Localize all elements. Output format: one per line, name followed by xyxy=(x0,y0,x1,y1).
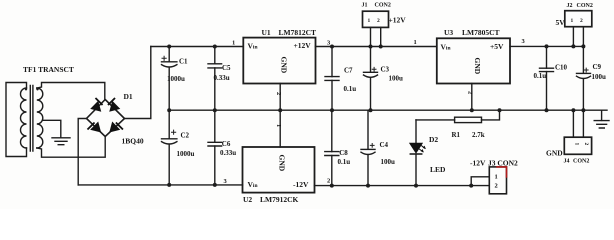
svg-text:0.33u: 0.33u xyxy=(220,149,236,157)
wire bridge left vertex branch and drop to bottom rail xyxy=(78,119,86,185)
svg-text:1000u: 1000u xyxy=(167,75,185,83)
wire bridge right vertex to top rail xyxy=(125,47,151,119)
wire GND mid rail xyxy=(169,109,607,111)
svg-text:Vin: Vin xyxy=(248,42,258,51)
svg-text:GND: GND xyxy=(278,155,287,172)
svg-text:1: 1 xyxy=(571,18,574,24)
wire top rail to U1 Vin xyxy=(151,46,244,48)
svg-text:C6: C6 xyxy=(222,140,231,148)
capacitor C1 xyxy=(168,47,170,62)
svg-text:C5: C5 xyxy=(222,64,231,72)
diode D1 bottom-right xyxy=(110,123,122,132)
wire +12V rail U1 out to U3 in xyxy=(316,46,437,48)
connector J4 CON2 xyxy=(564,137,591,154)
svg-text:GND: GND xyxy=(473,58,482,75)
op-amp U1 regulator box xyxy=(243,38,315,84)
svg-text:2: 2 xyxy=(495,183,498,190)
pin 2 U2 wire / -12V rail xyxy=(315,185,490,187)
pin 3 U2 xyxy=(224,178,228,185)
svg-text:TF1 TRANSCT: TF1 TRANSCT xyxy=(23,65,74,74)
svg-text:C1: C1 xyxy=(179,58,188,66)
svg-text:GND: GND xyxy=(280,57,289,74)
svg-text:R1: R1 xyxy=(452,131,461,139)
svg-text:2: 2 xyxy=(275,92,282,95)
wire primary loop xyxy=(6,83,27,157)
svg-text:C4: C4 xyxy=(380,141,389,149)
svg-text:C9: C9 xyxy=(593,63,602,71)
capacitor C5 xyxy=(214,47,216,64)
svg-text:-12V: -12V xyxy=(293,180,309,189)
resistor R1 xyxy=(455,117,482,122)
svg-text:LED: LED xyxy=(430,165,446,174)
svg-text:1: 1 xyxy=(232,39,235,46)
label D1 xyxy=(124,92,133,101)
transformer polarity dots xyxy=(25,88,39,90)
svg-text:2.7k: 2.7k xyxy=(472,131,485,139)
capacitor C6 xyxy=(214,110,216,142)
svg-text:1: 1 xyxy=(495,174,498,181)
svg-text:CON2: CON2 xyxy=(577,3,593,9)
transformer core xyxy=(30,86,33,152)
power label 5V xyxy=(556,18,566,27)
svg-text:J3 CON2: J3 CON2 xyxy=(488,158,518,167)
pin 3 U3 xyxy=(522,38,526,45)
wire bottom rail (to U2 pin 3) xyxy=(78,184,242,186)
svg-text:+12V: +12V xyxy=(294,41,312,50)
svg-text:C8: C8 xyxy=(339,149,348,157)
svg-text:D1: D1 xyxy=(124,92,133,101)
svg-text:2: 2 xyxy=(583,143,589,146)
capacitor C10 xyxy=(546,46,548,68)
svg-text:2: 2 xyxy=(580,18,583,24)
svg-text:Vin: Vin xyxy=(248,180,258,189)
svg-text:CON2: CON2 xyxy=(573,158,589,164)
svg-text:Vin: Vin xyxy=(441,42,451,51)
LED arrows xyxy=(418,144,426,152)
pin 2 U3 wire xyxy=(471,84,473,111)
diode D1 bottom-left xyxy=(88,123,100,132)
label 1BQ40 xyxy=(122,136,144,145)
svg-text:GND: GND xyxy=(546,148,563,157)
bridge rectifier D1 diamond xyxy=(87,100,125,137)
svg-text:1000u: 1000u xyxy=(177,150,195,158)
ground symbol (center tap) xyxy=(52,138,70,145)
capacitor C4 xyxy=(367,110,369,149)
capacitor C8 xyxy=(331,110,333,151)
svg-text:U3: U3 xyxy=(444,28,453,37)
svg-text:U2: U2 xyxy=(243,195,252,204)
capacitor C3 xyxy=(370,47,372,73)
pin 2 U1 / pin 1 U2 vertical wire xyxy=(279,84,281,148)
diode D1 top-right xyxy=(109,99,120,111)
svg-text:1: 1 xyxy=(414,39,417,46)
capacitor C7 xyxy=(331,47,333,77)
svg-text:LM7912CK: LM7912CK xyxy=(260,195,298,204)
wire center tap to ground xyxy=(43,120,61,137)
transformer T1 primary winding xyxy=(21,88,27,148)
svg-text:LM7812CT: LM7812CT xyxy=(279,28,317,37)
capacitor C2 xyxy=(168,110,170,138)
svg-text:+5V: +5V xyxy=(490,42,504,51)
op-amp U2 regulator box xyxy=(243,147,315,193)
svg-text:2: 2 xyxy=(327,178,330,185)
svg-text:J1: J1 xyxy=(362,3,368,9)
svg-text:100u: 100u xyxy=(389,75,404,83)
connector J2 CON2 xyxy=(565,11,592,27)
svg-text:2: 2 xyxy=(377,18,380,24)
transformer TF1 label xyxy=(23,65,74,74)
svg-text:5V: 5V xyxy=(556,18,566,27)
connector J1 CON2 xyxy=(363,11,389,27)
pin 3 U1 xyxy=(327,40,331,47)
svg-text:1BQ40: 1BQ40 xyxy=(122,136,144,145)
pin 1 U1 xyxy=(232,39,235,46)
svg-text:J4: J4 xyxy=(564,158,570,164)
transformer T1 secondary winding xyxy=(37,88,43,148)
svg-text:C2: C2 xyxy=(181,131,190,139)
op-amp U3 regulator box xyxy=(437,38,510,83)
svg-text:1: 1 xyxy=(275,124,282,127)
wire secondary top lead to bridge top xyxy=(37,83,105,100)
diode D1 top-left xyxy=(91,99,102,111)
svg-text:J2: J2 xyxy=(567,3,573,9)
svg-text:3: 3 xyxy=(522,38,526,45)
svg-text:0.33u: 0.33u xyxy=(214,74,230,82)
svg-text:3: 3 xyxy=(224,178,228,185)
svg-text:1: 1 xyxy=(574,143,580,146)
svg-text:C3: C3 xyxy=(381,65,390,73)
wire secondary bottom lead xyxy=(37,137,105,158)
svg-text:C10: C10 xyxy=(555,64,568,72)
svg-text:0.1u: 0.1u xyxy=(344,85,357,93)
svg-text:-12V: -12V xyxy=(470,158,486,167)
ground symbol (right) xyxy=(601,110,603,120)
wire +5V rail xyxy=(510,45,583,47)
svg-text:100u: 100u xyxy=(381,158,396,166)
svg-text:0.1u: 0.1u xyxy=(338,158,351,166)
svg-text:1: 1 xyxy=(368,18,371,24)
pin 1 U3 xyxy=(414,39,417,46)
power label +12V xyxy=(389,16,407,25)
svg-text:+12V: +12V xyxy=(389,16,407,25)
svg-text:C7: C7 xyxy=(344,67,353,75)
svg-text:100u: 100u xyxy=(592,73,607,81)
svg-text:D2: D2 xyxy=(429,135,438,144)
svg-text:LM7805CT: LM7805CT xyxy=(462,28,500,37)
LED D2 xyxy=(415,120,417,143)
svg-text:0.1u: 0.1u xyxy=(534,72,547,80)
svg-text:U1: U1 xyxy=(262,28,271,37)
svg-text:2: 2 xyxy=(467,91,474,94)
connector J3 CON2 xyxy=(489,167,506,194)
capacitor C9 xyxy=(582,46,584,73)
svg-text:CON2: CON2 xyxy=(375,3,391,9)
